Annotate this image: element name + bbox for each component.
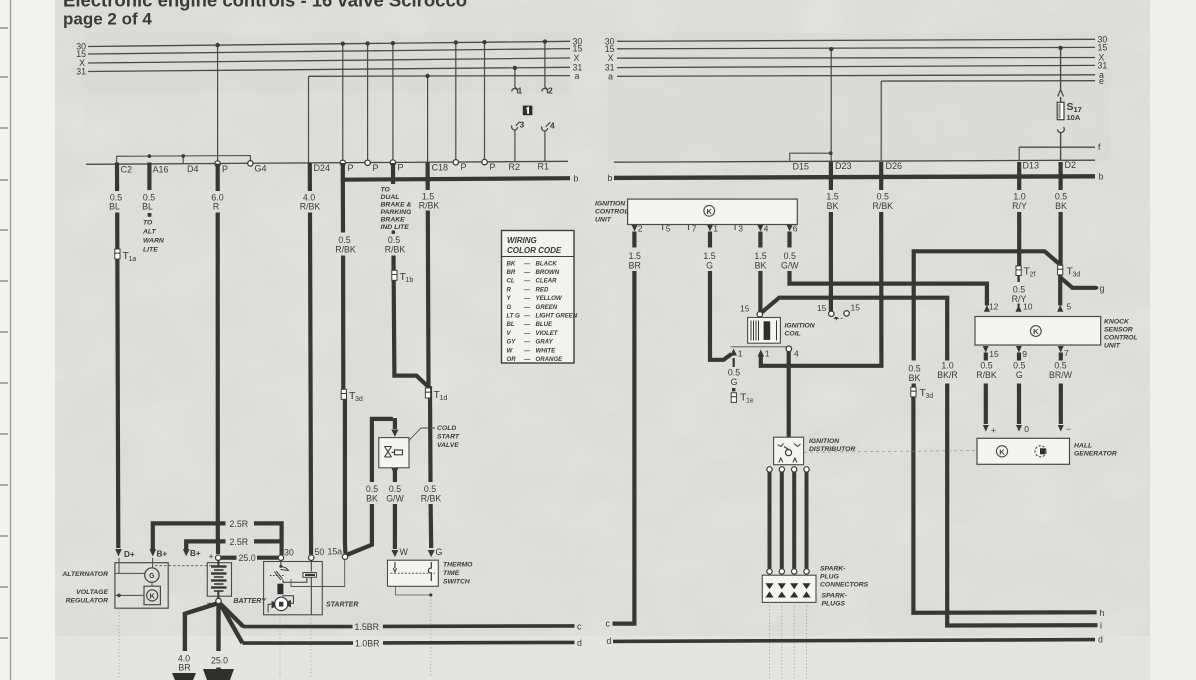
svg-text:SENSOR: SENSOR: [1104, 327, 1133, 334]
svg-text:15: 15: [740, 304, 750, 314]
connector T1a: [115, 249, 137, 263]
bus 30 (left): [88, 41, 570, 46]
junction dot A16/bracket: [148, 154, 152, 158]
svg-text:i: i: [1100, 620, 1102, 630]
dotted drop below starter: [279, 615, 281, 678]
ignition switch block [1]: [523, 106, 533, 116]
svg-text:0.5: 0.5: [338, 235, 350, 245]
svg-text:0.5: 0.5: [388, 235, 400, 245]
svg-text:B+: B+: [190, 549, 201, 558]
fuse arrow top: [1058, 90, 1064, 97]
svg-text:C18: C18: [432, 162, 449, 172]
svg-text:LIGHT GREEN: LIGHT GREEN: [536, 313, 578, 320]
svg-text:2: 2: [548, 86, 553, 96]
junction dot P6/30: [482, 40, 486, 44]
wire knock7 to hall -: [1059, 353, 1063, 425]
svg-text:h: h: [1100, 608, 1105, 618]
knock pin 10 stub: [1017, 304, 1019, 307]
ICU pin 4: [757, 225, 763, 231]
battery box: [207, 563, 231, 597]
bus X (left): [88, 58, 570, 63]
wire D13 1.0R/Y to T2f and knock 10: [1017, 162, 1021, 266]
knock sensor control unit box: [975, 317, 1101, 346]
bus 31 (left): [88, 67, 570, 71]
svg-text:R/BK: R/BK: [421, 494, 442, 504]
svg-text:VALVE: VALVE: [437, 442, 459, 449]
svg-text:0.5: 0.5: [908, 364, 920, 374]
svg-text:0.5: 0.5: [877, 192, 889, 202]
wire contact3 to R2: [514, 130, 516, 162]
arrow hall +: [983, 425, 989, 432]
svg-text:SPARK-: SPARK-: [820, 566, 846, 573]
coil terminal bar: [731, 346, 789, 348]
svg-text:IND LITE: IND LITE: [381, 224, 410, 231]
svg-text:D15: D15: [793, 161, 810, 171]
svg-text:1d: 1d: [440, 395, 448, 402]
connector T3d (left): [341, 389, 363, 403]
svg-text:15: 15: [1098, 42, 1108, 52]
svg-text:4: 4: [550, 121, 555, 131]
svg-text:P: P: [490, 162, 496, 172]
svg-text:GY: GY: [507, 339, 517, 346]
junction dot D23/15: [829, 47, 833, 51]
svg-text:BATTERY: BATTERY: [234, 598, 268, 605]
svg-text:G: G: [731, 377, 738, 387]
svg-text:0.5: 0.5: [784, 251, 796, 261]
svg-text:P: P: [222, 164, 228, 174]
svg-text:d: d: [1098, 635, 1103, 645]
wire pin2 1.5BR down to c: [613, 232, 635, 624]
svg-text:OR: OR: [507, 356, 517, 363]
ignition switch contact 4: [542, 122, 551, 131]
svg-text:+: +: [991, 425, 996, 435]
ignition switch contact 2: [542, 87, 548, 94]
svg-text:IGNITION: IGNITION: [785, 323, 816, 330]
svg-text:—: —: [523, 295, 531, 302]
label SPARK-PLUG CONNECTORS: [820, 566, 869, 589]
wire P3 to bus 30: [367, 44, 369, 164]
ignition coil windings: [751, 321, 777, 341]
svg-text:page 2 of 4: page 2 of 4: [63, 10, 152, 29]
wire P3 0.5R/BK via T1b: [391, 163, 395, 184]
arrow thermo G: [428, 550, 435, 557]
svg-text:d: d: [607, 636, 612, 646]
arrow hall 0: [1016, 425, 1022, 432]
wire 2.5R no.1 B+ to starter 30: [153, 523, 282, 555]
knock pin 7b: [1058, 346, 1064, 353]
svg-text:K: K: [149, 591, 155, 600]
svg-text:KNOCK: KNOCK: [1104, 319, 1130, 326]
svg-text:COIL: COIL: [785, 331, 801, 338]
svg-text:R/BK: R/BK: [419, 201, 440, 211]
junction dot C18/a: [425, 74, 429, 78]
svg-text:PLUG: PLUG: [820, 574, 840, 581]
svg-text:d: d: [577, 638, 582, 648]
svg-text:c: c: [606, 619, 611, 629]
svg-text:—: —: [523, 339, 531, 346]
svg-text:BR: BR: [507, 269, 516, 276]
svg-text:UNIT: UNIT: [595, 217, 612, 224]
terminal circle P4: [390, 160, 395, 165]
svg-text:THERMO: THERMO: [443, 562, 473, 569]
svg-text:CL: CL: [507, 278, 515, 285]
knock K symbol: [1030, 326, 1041, 337]
svg-text:1b: 1b: [406, 277, 414, 284]
terminal circle 15a: [342, 554, 347, 559]
connector T1d: [425, 388, 447, 402]
ICU K symbol: [704, 205, 715, 216]
svg-text:G: G: [149, 573, 155, 580]
label THERMO TIME SWITCH: [443, 562, 473, 586]
ICU pin 1: [707, 225, 713, 231]
svg-text:BRAKE &: BRAKE &: [381, 202, 412, 209]
label IGNITION DISTRIBUTOR: [809, 438, 855, 453]
svg-text:K: K: [1033, 327, 1039, 336]
wire D24 4.0R/BK to starter 50: [308, 163, 312, 191]
terminal circle P5: [453, 160, 458, 165]
svg-text:R/BK: R/BK: [300, 202, 321, 212]
ICU pin 3: [734, 225, 736, 230]
label COLD START VALVE: [437, 425, 460, 449]
svg-text:BLACK: BLACK: [536, 260, 558, 267]
svg-text:0.5: 0.5: [1013, 361, 1025, 371]
svg-text:6: 6: [793, 224, 798, 234]
cold start valve box: [379, 438, 409, 468]
svg-text:START: START: [437, 434, 460, 441]
svg-text:K: K: [706, 207, 712, 216]
wire P 6.0R to battery +: [216, 164, 220, 191]
spark plug connectors box: [762, 575, 816, 602]
svg-text:BK: BK: [909, 373, 921, 383]
arrow alternator D+: [115, 549, 122, 556]
svg-text:1.0: 1.0: [941, 361, 953, 371]
svg-text:COLD: COLD: [437, 425, 456, 432]
svg-text:CONTROL: CONTROL: [1104, 335, 1138, 342]
svg-text:3: 3: [520, 120, 525, 130]
svg-text:SPARK-: SPARK-: [822, 593, 848, 600]
bus X (right): [617, 57, 1095, 60]
svg-text:−: −: [1066, 424, 1071, 434]
svg-text:b: b: [1099, 172, 1104, 182]
svg-text:S: S: [1067, 101, 1074, 113]
svg-text:—: —: [523, 304, 531, 311]
svg-text:0.5: 0.5: [389, 484, 401, 494]
terminal strip (left): [86, 161, 568, 164]
svg-text:G: G: [436, 547, 443, 557]
line d (left) 1.0BR: [243, 641, 575, 645]
wire fuse S17 from bus 15: [1060, 48, 1062, 161]
svg-text:g: g: [1100, 283, 1105, 293]
svg-text:2.5R: 2.5R: [230, 537, 249, 547]
label KNOCK SENSOR CONTROL UNIT: [1104, 319, 1138, 350]
terminal strip (right): [614, 160, 1095, 162]
svg-text:UNIT: UNIT: [1104, 343, 1121, 350]
connector T1b: [392, 270, 414, 284]
svg-text:STARTER: STARTER: [326, 602, 358, 609]
coil terminal 4 circle: [786, 346, 792, 352]
svg-text:1.0BR: 1.0BR: [355, 639, 379, 649]
svg-text:COLOR CODE: COLOR CODE: [507, 246, 562, 255]
bus a (left): [309, 75, 571, 78]
svg-text:LT G: LT G: [507, 313, 521, 320]
svg-text:—: —: [523, 278, 531, 285]
svg-text:ALT: ALT: [142, 229, 157, 236]
arrow out of cold start valve: [391, 468, 398, 475]
wire D24 to bus a: [308, 76, 310, 164]
svg-text:BL: BL: [109, 202, 120, 212]
connector 15 link: [834, 317, 845, 319]
b bus (right): [614, 176, 1095, 178]
wire branch g: [1060, 278, 1095, 288]
svg-text:BL: BL: [142, 202, 153, 212]
svg-text:1.5: 1.5: [703, 251, 715, 261]
label HALL GENERATOR: [1074, 443, 1117, 458]
arrow coil terminal 1b: [758, 350, 765, 357]
thick wires left half: [117, 163, 570, 556]
svg-text:CONTROL: CONTROL: [595, 209, 629, 216]
svg-text:PARKING: PARKING: [381, 209, 413, 216]
svg-text:c: c: [577, 621, 582, 631]
note square (brake): [392, 231, 395, 234]
bus 15 (left): [88, 49, 570, 54]
junction dot fuse/15: [1058, 46, 1062, 50]
svg-text:K: K: [999, 447, 1005, 456]
arrow alternator B+: [149, 549, 156, 556]
svg-text:3d: 3d: [926, 393, 934, 400]
svg-text:ORANGE: ORANGE: [536, 356, 564, 363]
svg-text:BR: BR: [629, 261, 641, 271]
terminal circle P3: [365, 160, 370, 165]
battery minus fan wires: [185, 604, 244, 680]
svg-text:0.5: 0.5: [366, 484, 378, 494]
wire contact4 to R1: [544, 131, 546, 162]
svg-text:15: 15: [817, 303, 827, 313]
svg-text:—: —: [523, 330, 531, 337]
junction dot starter 30: [279, 565, 282, 568]
svg-text:REGULATOR: REGULATOR: [66, 598, 109, 605]
wire battery + drop: [216, 541, 220, 554]
svg-text:—: —: [523, 321, 531, 328]
wire P4 to bus 30: [392, 43, 394, 163]
arrow knock pin 5: [1057, 305, 1063, 312]
svg-text:G: G: [1016, 370, 1023, 380]
terminal circle G4: [248, 161, 253, 166]
svg-text:1.5: 1.5: [826, 192, 838, 202]
fuse S17 body: [1057, 102, 1064, 119]
svg-text:e: e: [1099, 76, 1104, 86]
svg-text:4: 4: [794, 349, 799, 359]
wire C18 to bus a: [427, 76, 429, 163]
svg-text:TO: TO: [381, 187, 391, 194]
distributor lower contacts: [779, 458, 783, 463]
ignition distributor box: [774, 437, 804, 465]
svg-text:0.5: 0.5: [424, 484, 436, 494]
svg-text:BROWN: BROWN: [536, 269, 560, 276]
connector T3d (right): [1058, 265, 1081, 278]
svg-text:3: 3: [738, 224, 743, 234]
hall K symbol: [996, 446, 1007, 457]
dotted spark plug leads: [770, 602, 807, 678]
ignition control unit box: [628, 199, 798, 224]
bus 30 (right): [617, 39, 1095, 41]
junction dot contact1/31: [513, 66, 517, 70]
wire D23 to bus 15: [830, 49, 832, 161]
svg-text:BLUE: BLUE: [536, 321, 554, 328]
terminal circle P2: [340, 160, 345, 165]
alternator regulator K box: [144, 586, 160, 605]
alternator G symbol: [145, 568, 159, 582]
wire cold start valve top stub: [393, 418, 397, 429]
svg-text:PLUGS: PLUGS: [822, 601, 846, 608]
battery cells: [211, 560, 227, 598]
alternator box: [115, 563, 168, 609]
svg-text:CONNECTORS: CONNECTORS: [820, 582, 869, 589]
label SPARK-PLUGS: [822, 593, 848, 608]
svg-text:7: 7: [692, 224, 697, 234]
svg-text:—: —: [523, 313, 531, 320]
bracket C2-A16-D4-G4: [117, 156, 251, 164]
svg-text:1: 1: [738, 349, 743, 359]
hall generator box: [977, 438, 1070, 464]
svg-text:D23: D23: [835, 161, 852, 171]
wire 15a to cold start valve: [347, 504, 372, 555]
svg-text:0.5: 0.5: [1054, 361, 1066, 371]
svg-text:R2: R2: [509, 162, 521, 172]
ICU pin 6: [787, 225, 793, 231]
wire contact1 from bus 31: [514, 68, 516, 87]
wire P2/b-bus 0.5R/BK to 15a: [341, 163, 345, 233]
svg-text:R/BK: R/BK: [335, 245, 356, 255]
svg-text:25.0: 25.0: [211, 656, 228, 666]
connector circle 15 a: [829, 311, 834, 316]
svg-text:GREEN: GREEN: [536, 304, 558, 311]
wire pin4 1.5BK to coil 15: [758, 232, 762, 312]
spark plug connector triangles: [765, 583, 810, 597]
wire C18 1.5R/BK to thermo G: [426, 163, 430, 191]
svg-text:B+: B+: [157, 550, 168, 559]
svg-text:0.5: 0.5: [1055, 192, 1067, 202]
svg-text:D24: D24: [314, 163, 331, 173]
svg-text:GRAY: GRAY: [536, 339, 554, 346]
starter motor: [275, 597, 288, 610]
fuse hook bottom: [1058, 127, 1065, 133]
svg-text:—: —: [523, 286, 531, 293]
arrow B+ no.2: [183, 549, 190, 556]
svg-text:0: 0: [1024, 424, 1029, 434]
svg-text:CLEAR: CLEAR: [536, 278, 558, 285]
svg-text:P: P: [373, 163, 379, 173]
bus f (right): [1019, 146, 1095, 148]
terminal circle starter 30: [278, 555, 283, 560]
junction dot bracket/D23: [829, 151, 833, 155]
wire 25.0 battery to starter 30: [221, 556, 278, 560]
svg-text:—: —: [523, 356, 531, 363]
arrow knock pin 12: [984, 305, 990, 312]
svg-text:0.5: 0.5: [1013, 285, 1025, 295]
svg-text:R1: R1: [538, 162, 550, 172]
label VOLTAGE REGULATOR: [66, 589, 109, 605]
junction dot alternator: [117, 594, 121, 598]
T1e stub wire: [733, 358, 735, 367]
svg-text:D4: D4: [187, 164, 199, 174]
svg-text:BRAKE: BRAKE: [381, 217, 406, 224]
bus a (right): [617, 75, 1095, 77]
svg-text:BK: BK: [1055, 201, 1067, 211]
svg-text:R/Y: R/Y: [1012, 201, 1027, 211]
svg-text:25.0: 25.0: [239, 553, 256, 563]
svg-text:—: —: [523, 347, 531, 354]
wire D26 to bus e: [880, 81, 882, 161]
svg-text:10: 10: [1023, 302, 1033, 312]
connector T2f: [1016, 266, 1035, 279]
svg-text:WARN: WARN: [143, 238, 165, 245]
wire 0.5BK branch via T3d to h: [913, 249, 1096, 613]
svg-text:D+: D+: [124, 550, 135, 559]
starter box: [264, 562, 323, 615]
spark plug wire 2: [779, 467, 784, 574]
bracket D15 to D23: [790, 153, 831, 161]
wire D23 1.5BK to connector 15: [829, 162, 833, 311]
svg-text:D2: D2: [1065, 160, 1077, 170]
svg-text:5: 5: [666, 224, 671, 234]
svg-text:D26: D26: [886, 161, 903, 171]
svg-text:0.5: 0.5: [980, 361, 992, 371]
label IGNITION COIL: [785, 323, 816, 338]
svg-text:15: 15: [851, 302, 861, 312]
starter solenoid switch: [268, 560, 311, 614]
wire D26 0.5R/BK to coil 1b: [761, 162, 882, 366]
note square (A16): [148, 213, 152, 217]
bus e (right): [881, 80, 1095, 82]
svg-text:1: 1: [518, 86, 523, 96]
svg-text:1.5: 1.5: [754, 251, 766, 261]
wire 2.5R no.2 B+2 to junction: [186, 541, 283, 550]
svg-text:2.5R: 2.5R: [230, 519, 249, 529]
svg-text:1.5BR: 1.5BR: [355, 622, 379, 632]
coil terminal 15 circle: [757, 312, 762, 317]
arrow thermo W: [391, 550, 398, 557]
wire P2 to bus 30: [342, 44, 344, 163]
svg-text:IGNITION: IGNITION: [595, 201, 626, 208]
svg-text:4: 4: [764, 224, 769, 234]
wire D13 to bus f: [1018, 147, 1020, 161]
svg-text:15a: 15a: [328, 547, 343, 557]
svg-text:G4: G4: [255, 164, 267, 174]
svg-text:HALL: HALL: [1074, 443, 1092, 450]
distributor rotor: [785, 450, 791, 456]
svg-text:IGNITION: IGNITION: [809, 438, 840, 445]
svg-text:P: P: [348, 163, 354, 173]
svg-text:TIME: TIME: [443, 570, 460, 577]
svg-text:BR: BR: [178, 663, 190, 673]
svg-text:9: 9: [1022, 349, 1027, 359]
wire cold start valve to thermo W: [393, 468, 397, 482]
svg-text:YELLOW: YELLOW: [536, 295, 563, 302]
distributor cap contacts: [778, 444, 801, 447]
svg-text:1: 1: [765, 349, 770, 359]
wire knock15 to hall +: [984, 353, 988, 425]
dashed link B+ to battery: [155, 565, 214, 567]
wire knock9 to hall 0: [1017, 353, 1021, 425]
wire coil15 branch 1.0BK/R to i: [762, 298, 1098, 626]
svg-text:R/BK: R/BK: [873, 201, 894, 211]
wire P1 to bus 30: [217, 45, 219, 163]
svg-text:VOLTAGE: VOLTAGE: [76, 589, 108, 596]
wire D2 0.5BK through T3d to knock 5: [1058, 162, 1062, 266]
svg-text:1.0: 1.0: [1013, 192, 1025, 202]
starter contact block: [303, 573, 316, 578]
svg-text:BK: BK: [755, 261, 767, 271]
